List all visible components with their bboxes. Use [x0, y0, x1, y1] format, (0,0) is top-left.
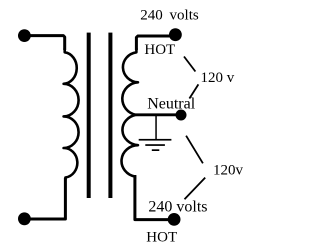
svg-text:120v: 120v: [213, 162, 244, 178]
ground bar 3: [152, 149, 160, 151]
node: neutral terminal: [176, 110, 187, 121]
transformer core left line: [87, 33, 91, 198]
node: primary top terminal: [18, 29, 31, 42]
wire: primary bottom: [24, 178, 65, 219]
secondary winding upper half: [122, 48, 138, 115]
pointer line: 120 v to Neutral: [189, 84, 198, 98]
pointer line: Neutral to 120v: [186, 136, 203, 164]
transformer core right line: [108, 33, 112, 198]
node: secondary top terminal (HOT): [169, 28, 182, 41]
ground bar 1: [139, 139, 172, 141]
pointer line: 120v to 240 volts: [185, 178, 206, 200]
svg-text:HOT: HOT: [144, 42, 175, 58]
svg-text:240 volts: 240 volts: [148, 198, 207, 215]
svg-text:Neutral: Neutral: [147, 96, 196, 113]
wire: secondary top: [136, 36, 175, 50]
svg-text:120 v: 120 v: [201, 70, 235, 86]
node: primary bottom terminal: [18, 212, 31, 225]
wire: secondary bottom: [135, 175, 174, 220]
ground bar 2: [145, 144, 165, 146]
pointer line: HOT to 120 v: [184, 57, 195, 72]
secondary winding lower half: [122, 115, 138, 179]
svg-text:HOT: HOT: [146, 229, 177, 245]
wire: neutral tap: [136, 113, 181, 116]
svg-text:240 volts: 240 volts: [140, 8, 199, 24]
primary winding: [64, 48, 79, 180]
wire: primary top: [24, 36, 64, 50]
ground stem: [155, 115, 157, 139]
node: secondary bottom terminal (HOT): [168, 213, 181, 226]
